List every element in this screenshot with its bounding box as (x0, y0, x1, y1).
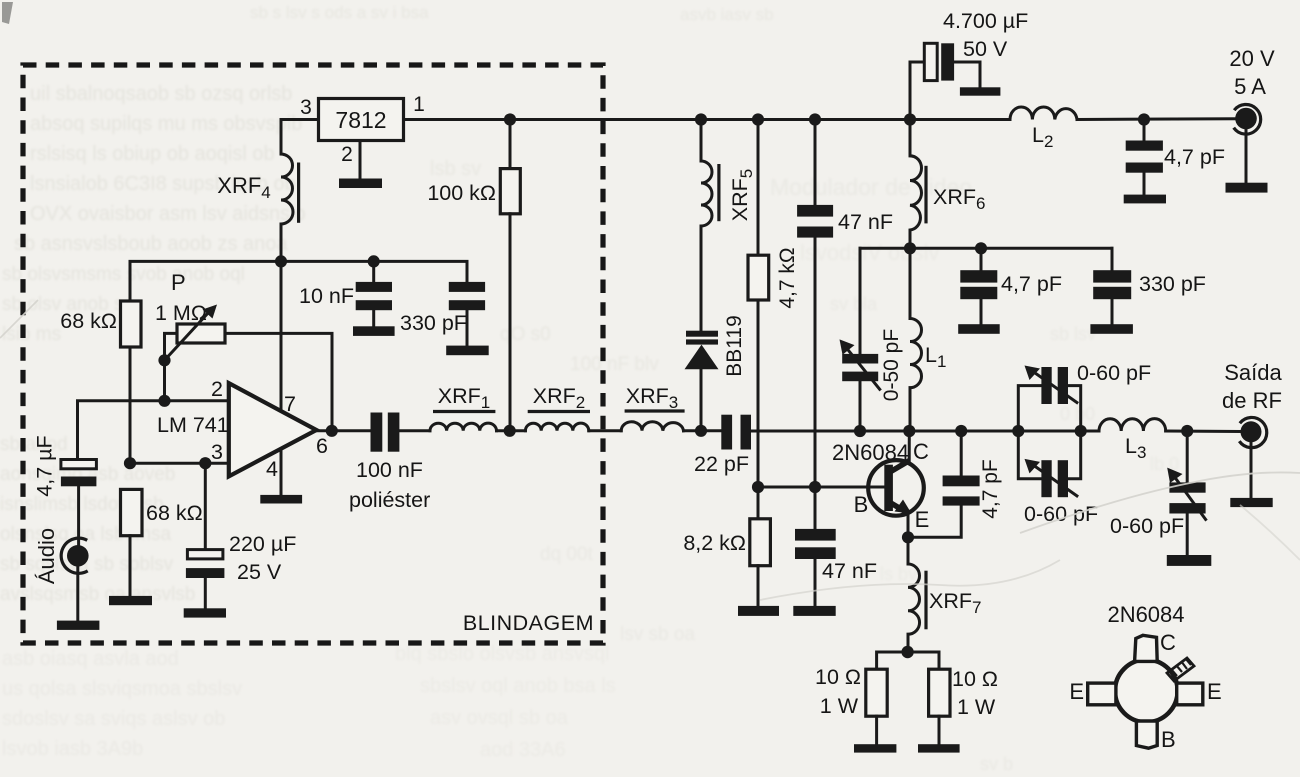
svg-text:qO s0: qO s0 (500, 324, 551, 345)
capacitor 10nF (372, 261, 375, 282)
trimmer capacitor 0-60pF output (1186, 431, 1189, 482)
capacitor 4,7uF audio input (61, 460, 97, 469)
svg-text:330 pF: 330 pF (400, 311, 467, 335)
svg-text:0-50 pF: 0-50 pF (880, 329, 903, 401)
node 4,7pF tank top (975, 242, 987, 254)
node 0-60 pair left (1012, 425, 1024, 437)
capacitor 4,7pF at rail (1143, 120, 1146, 141)
svg-text:B: B (854, 492, 869, 517)
svg-text:1: 1 (413, 93, 425, 116)
svg-text:68 kΩ: 68 kΩ (146, 501, 203, 525)
capacitor 100nF poliester (371, 413, 383, 452)
svg-text:22 pF: 22 pF (694, 452, 749, 476)
node emitter resistors (901, 646, 913, 658)
connector Audio input (67, 545, 89, 567)
wire to capacitor 4.700uF (910, 62, 924, 120)
wire 100nF to XRF1 (399, 429, 430, 432)
svg-text:4,7 µF: 4,7 µF (33, 435, 57, 496)
svg-text:100 nF blv: 100 nF blv (570, 354, 659, 375)
capacitor 4,7pF emitter (943, 476, 980, 487)
wire XRF3 to 22pF (684, 429, 722, 432)
node on rail at 47nF (809, 113, 821, 125)
svg-text:E: E (1069, 679, 1084, 704)
svg-text:absoq supilqs mu ms obsvspib: absoq supilqs mu ms obsvspib (30, 113, 302, 135)
ground below 330pF (446, 346, 489, 356)
svg-text:C: C (1160, 630, 1176, 655)
svg-text:asvb iasv sb: asvb iasv sb (680, 5, 774, 24)
node XRF6 bottom / L1 top (904, 242, 916, 254)
MAIN SCHEMATIC (23, 65, 603, 643)
svg-text:BLINDAGEM: BLINDAGEM (463, 611, 594, 635)
node on rail at 100k (504, 113, 516, 125)
collector row wire (751, 430, 1099, 433)
shield box BLINDAGEM dashed border (23, 65, 603, 643)
ground below 4.700uF (960, 87, 1001, 95)
svg-text:Áudio: Áudio (34, 528, 59, 584)
svg-text:7: 7 (284, 392, 296, 416)
svg-text:1 W: 1 W (957, 695, 996, 719)
resistor R 10 ohm 1W right (929, 669, 950, 716)
svg-text:5 A: 5 A (1234, 74, 1266, 99)
svg-text:lsvodsiV obslv: lsvodsiV obslv (800, 240, 939, 265)
svg-text:sb s lsv s ods a sv i bsa: sb s lsv s ods a sv i bsa (250, 3, 429, 22)
svg-text:10 Ω: 10 Ω (952, 667, 998, 691)
capacitor 47nF lower (814, 487, 817, 529)
svg-text:E: E (1207, 679, 1222, 704)
resistor R 68k lower (121, 489, 143, 535)
node 0-60 pair right (1075, 425, 1087, 437)
svg-text:4: 4 (266, 457, 278, 481)
wire XRF2 to XRF3 (589, 429, 621, 432)
svg-text:330 pF: 330 pF (1139, 272, 1206, 296)
svg-text:sv b: sv b (980, 754, 1013, 774)
svg-text:BB119: BB119 (723, 315, 746, 377)
svg-text:220 µF: 220 µF (229, 532, 296, 556)
ground below 7812 pin2 (339, 179, 382, 189)
ground below 20V connector (1226, 183, 1268, 193)
svg-text:7812: 7812 (335, 107, 386, 133)
wire 7812 pin3 to XRF4 top (281, 120, 319, 155)
node XRF4 bottom (275, 255, 287, 267)
resistor R 8,2k (757, 487, 760, 519)
regulator U1 7812 body (319, 99, 404, 141)
svg-text:10 Ω: 10 Ω (815, 665, 861, 689)
ground below 10nF (353, 326, 395, 336)
node output trimmer (1181, 425, 1193, 437)
ground below 4,7pF tank (958, 324, 1000, 334)
svg-text:lsv sb oa: lsv sb oa (620, 624, 695, 645)
node 10nF top (368, 255, 380, 267)
diode D BB119 varicap (700, 226, 703, 332)
package tab C top (1135, 635, 1158, 661)
ground below RF output (1230, 498, 1272, 507)
inductor XRF4 (281, 154, 293, 261)
svg-text:C: C (913, 439, 929, 464)
ground below 8,2k (738, 606, 779, 616)
svg-text:100 nF: 100 nF (356, 458, 423, 482)
svg-text:Saída: Saída (1224, 360, 1282, 385)
svg-text:0-60 pF: 0-60 pF (1077, 361, 1151, 385)
svg-text:47 nF: 47 nF (838, 210, 893, 234)
wire pin7 supply (280, 261, 283, 411)
inductor XRF7 (907, 537, 910, 564)
inductor XRF5 (700, 120, 703, 162)
svg-text:dq 00t: dq 00t (540, 544, 594, 565)
svg-text:25 V: 25 V (237, 560, 282, 584)
inductor XRF1 (430, 423, 497, 431)
node BB119 bottom (695, 425, 707, 437)
ground below left 10 ohm (854, 744, 896, 752)
capacitor 22pF (721, 415, 732, 450)
ground below audio connector (57, 621, 100, 630)
ground below 68k lower (109, 596, 152, 605)
node pin3 220uF (199, 457, 211, 469)
inductor L1 (909, 248, 912, 318)
wire pin3 row (129, 462, 229, 465)
main 12V rail wire (404, 118, 1011, 121)
svg-text:68 kΩ: 68 kΩ (60, 309, 117, 333)
capacitor 4,7pF tank (980, 248, 983, 270)
svg-text:aod 33A6: aod 33A6 (480, 739, 566, 761)
node 100k bottom (504, 425, 516, 437)
node trimmer 0-50 bottom (854, 425, 866, 437)
wire XRF1 to XRF2 (497, 429, 526, 432)
package body circle (1115, 660, 1178, 723)
svg-text:4,7 pF: 4,7 pF (1001, 272, 1062, 296)
svg-text:47 nF: 47 nF (822, 559, 877, 583)
node on rail at XRF5 (695, 113, 707, 125)
node pot wiper (158, 354, 170, 366)
tank row wire y248 (860, 247, 1112, 250)
capacitor C 4.700uF 50V electrolytic (924, 43, 937, 80)
svg-text:poliéster: poliéster (349, 488, 430, 512)
node on rail at 4,7pF (1138, 113, 1150, 125)
svg-text:lsb sv: lsb sv (430, 158, 481, 180)
node emitter (902, 531, 914, 543)
svg-text:2: 2 (211, 377, 223, 401)
svg-text:sdoslsv sa sviqs aslsv ob: sdoslsv sa sviqs aslsv ob (2, 708, 225, 730)
svg-text:2N6084: 2N6084 (1107, 602, 1184, 627)
svg-text:sv bla: sv bla (830, 294, 878, 314)
capacitor 330pF tank (1111, 248, 1114, 270)
resistor R 100k (509, 120, 512, 169)
ground below 47nF lower (793, 606, 835, 616)
ground below 4,7pF (1124, 195, 1166, 204)
scratch marks (0, 300, 1300, 600)
node 47nF base (809, 481, 821, 493)
svg-text:B: B (1161, 727, 1176, 752)
inductor XRF3 (621, 422, 683, 431)
inductor XRF2 (525, 423, 588, 431)
svg-text:1 W: 1 W (820, 694, 859, 718)
wire emitter to 4,7pF (908, 506, 961, 538)
connector J 20V input (1235, 108, 1257, 130)
svg-text:olsnslsq oa lsbomsa: olsnslsq oa lsbomsa (0, 524, 172, 545)
inductor XRF6 (909, 120, 912, 156)
svg-text:0 b0: 0 b0 (1060, 404, 1095, 424)
connector J RF output (1241, 421, 1262, 442)
op-amp U2 LM741 triangle (229, 383, 317, 476)
node L1 bottom / collector (903, 425, 915, 437)
svg-text:asb oiasq asvla aod: asb oiasq asvla aod (2, 648, 179, 670)
svg-text:de RF: de RF (1222, 388, 1282, 413)
ground below op-amp (260, 495, 302, 504)
svg-text:3: 3 (211, 440, 223, 464)
node pin3 left (124, 457, 136, 469)
resistor R 68k upper (121, 301, 142, 347)
oscillator output row wire (316, 429, 371, 432)
ground below output trimmer (1167, 555, 1212, 566)
feedback wire pot right to pin6 (225, 333, 332, 430)
svg-text:4,7 pF: 4,7 pF (979, 459, 1002, 519)
svg-text:lsvob iasb 3A9b: lsvob iasb 3A9b (2, 738, 143, 760)
svg-text:0-60 pF: 0-60 pF (1110, 514, 1184, 538)
node 4,7pF emitter cap top (955, 425, 967, 437)
node pin6 output (326, 425, 338, 437)
svg-text:sbslsv oql anob bsa ls: sbslsv oql anob bsa ls (420, 675, 616, 697)
inductor L2 in rail (1010, 107, 1077, 120)
svg-text:ls bv: ls bv (880, 564, 917, 584)
svg-text:0-60 pF: 0-60 pF (1024, 502, 1098, 526)
svg-text:LM 741: LM 741 (157, 413, 229, 437)
package tab B bottom (1136, 721, 1157, 748)
svg-text:6: 6 (316, 434, 328, 458)
trimmer capacitor 0-60pF lower of pair (1018, 431, 1041, 479)
svg-text:sb olsvsmsms svob anob oql: sb olsvsmsms svob anob oql (2, 264, 245, 285)
base row wire (758, 486, 886, 489)
capacitor 47nF upper (814, 120, 817, 205)
svg-text:avslsqsmsb oa ansvlsb: avslsqsmsb oa ansvlsb (0, 584, 195, 605)
svg-text:us qolsa slsviqsmoa sbslsv: us qolsa slsviqsmoa sbslsv (2, 678, 242, 700)
wire to 10 ohm resistors (877, 652, 939, 669)
svg-text:sb lsv: sb lsv (1050, 324, 1096, 344)
wire 7812 pin2 lead (359, 141, 362, 180)
ground below 220uF (184, 608, 226, 617)
svg-text:2: 2 (341, 143, 353, 166)
wire pin4 to ground (280, 449, 283, 495)
op-amp supply row wire (130, 261, 467, 301)
wire L3 to output (1166, 430, 1241, 434)
svg-text:10 nF: 10 nF (299, 284, 354, 308)
package tab E right (1177, 683, 1203, 705)
svg-text:20 V: 20 V (1229, 46, 1275, 71)
trimmer capacitor 0-60pF upper of pair (1018, 386, 1041, 431)
ground below right 10 ohm (918, 744, 960, 752)
svg-text:P: P (171, 270, 186, 295)
svg-text:E: E (915, 507, 930, 532)
capacitor 330pF left (449, 282, 485, 292)
ground below 330pF tank (1090, 324, 1133, 334)
package tab E left (1088, 683, 1116, 705)
svg-text:50 V: 50 V (963, 37, 1008, 61)
svg-text:100 kΩ: 100 kΩ (427, 181, 496, 205)
svg-text:uil sbalnoqsaob sb ozsq orlsb: uil sbalnoqsaob sb ozsq orlsb (30, 83, 292, 105)
node 4,7k / 8,2k base (752, 481, 764, 493)
pot wiper arrow (165, 312, 210, 360)
svg-text:blq sbslo olsvsb ansvsql: blq sbslo olsvsb ansvsql (395, 643, 610, 665)
trimmer capacitor 0-50pF (859, 248, 862, 354)
capacitor 220uF 25V (204, 463, 207, 549)
inductor L3 (1099, 419, 1166, 431)
node on rail at 4,7k (752, 113, 764, 125)
svg-text:rslsisq ls obiup ob aoqisl ob: rslsisq ls obiup ob aoqisl ob (30, 143, 275, 165)
svg-text:asv ovsql sb oa: asv ovsql sb oa (430, 707, 569, 729)
svg-text:4.700 µF: 4.700 µF (943, 9, 1028, 33)
node pot to pin2 (158, 395, 170, 407)
package index stub hatched (1167, 658, 1194, 681)
resistor R 10 ohm 1W left (866, 669, 887, 716)
wire pin2 row (78, 401, 229, 460)
svg-text:OVX ovaisbor asm lsv aidsnslo: OVX ovaisbor asm lsv aidsnslo (30, 203, 306, 225)
svg-text:3: 3 (300, 96, 312, 119)
node on rail at XRF6 (904, 113, 916, 125)
svg-text:sb asnsvslsboub aoob zs anoa: sb asnsvslsboub aoob zs anoa (14, 233, 288, 255)
svg-text:4,7 kΩ: 4,7 kΩ (776, 247, 799, 308)
svg-text:8,2 kΩ: 8,2 kΩ (683, 531, 746, 555)
resistor R 4,7k (757, 120, 760, 256)
svg-text:4,7 pF: 4,7 pF (1164, 145, 1225, 169)
